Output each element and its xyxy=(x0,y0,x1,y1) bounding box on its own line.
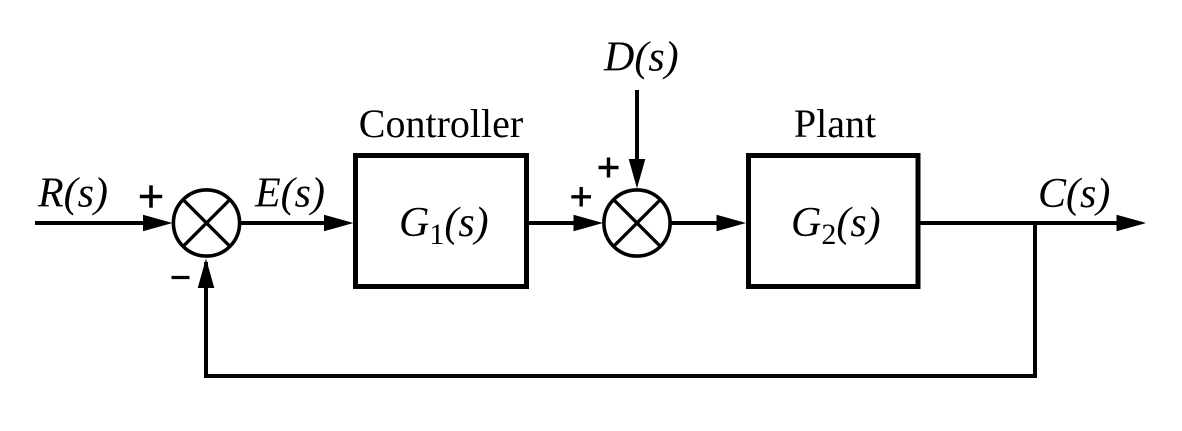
wire input R(s) xyxy=(35,221,150,225)
wire D(s) down into S2 xyxy=(635,90,639,165)
wire plant to output C(s) xyxy=(918,221,1120,225)
svg-text:E(s): E(s) xyxy=(254,171,325,217)
summing junction S1 circle xyxy=(173,190,239,256)
arrowhead into plant box xyxy=(717,215,747,232)
plus sign at summing junction S1 xyxy=(140,185,162,207)
arrowhead output C(s) xyxy=(1117,215,1147,232)
svg-text:G2(s): G2(s) xyxy=(791,200,881,251)
wire S2 to plant xyxy=(670,221,722,225)
minus sign below summing junction S1 xyxy=(172,276,190,279)
wire E(s) from S1 to controller xyxy=(240,221,330,225)
plus sign left of summing junction S2 xyxy=(571,187,591,207)
wire feedback branch down and across and up xyxy=(206,221,1035,376)
plus sign above summing junction S2 xyxy=(599,158,619,178)
svg-text:C(s): C(s) xyxy=(1038,171,1110,217)
arrowhead into summing junction S1 xyxy=(143,215,173,232)
arrowhead down into summing junction S2 xyxy=(629,159,646,189)
summing junction S1 cross xyxy=(183,200,229,246)
svg-text:Plant: Plant xyxy=(794,101,876,146)
summing junction S2 circle xyxy=(604,190,670,256)
svg-text:G1(s): G1(s) xyxy=(399,200,489,251)
arrowhead into summing junction S2 xyxy=(574,215,604,232)
wire controller to summing junction S2 xyxy=(529,221,580,225)
svg-text:D(s): D(s) xyxy=(603,35,679,81)
summing junction S2 cross xyxy=(614,200,660,246)
block G2 plant box xyxy=(749,156,919,287)
svg-text:Controller: Controller xyxy=(359,101,523,146)
arrowhead into controller box xyxy=(324,215,354,232)
svg-text:R(s): R(s) xyxy=(37,171,108,217)
block G1 controller box xyxy=(356,156,527,287)
arrowhead feedback up into S1 xyxy=(198,259,215,289)
